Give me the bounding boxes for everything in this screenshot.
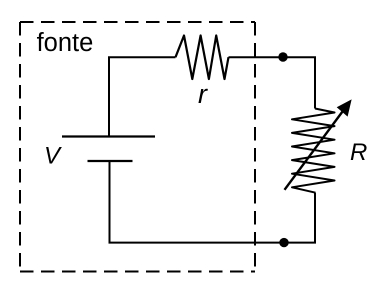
- dashed box left edge: [19, 22, 21, 272]
- arrow head of variable resistor: [338, 100, 351, 115]
- dashed box bottom edge: [20, 271, 255, 273]
- svg-text:r: r: [198, 79, 208, 109]
- resistor r zigzag: [176, 36, 229, 80]
- arrow shaft of variable resistor: [285, 110, 345, 190]
- wire bottom from battery: [110, 161, 316, 243]
- battery V long plate: [62, 135, 155, 137]
- node B (bottom junction dot): [279, 238, 288, 247]
- dashed box (fonte enclosure) top edge: [20, 21, 255, 23]
- svg-text:V: V: [44, 143, 62, 170]
- svg-text:fonte: fonte: [37, 29, 94, 57]
- node A (top junction dot): [278, 52, 287, 61]
- wire top horizontal left segment: [109, 57, 176, 136]
- variable resistor R zigzag: [292, 109, 335, 193]
- battery V short plate: [88, 160, 133, 162]
- dashed box right edge: [254, 22, 256, 272]
- svg-text:R: R: [350, 139, 367, 166]
- wire top horizontal right segment: [229, 57, 316, 108]
